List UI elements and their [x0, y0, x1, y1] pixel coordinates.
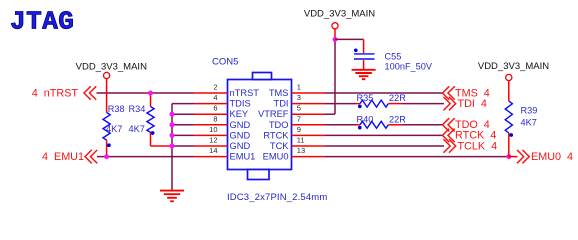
svg-text:TCK: TCK — [270, 141, 289, 151]
power VDD_3V3_MAIN (left) — [76, 62, 147, 79]
svg-text:13: 13 — [297, 146, 305, 155]
svg-text:VTREF: VTREF — [258, 109, 289, 119]
wire TDO (R40 to port) — [402, 124, 443, 126]
wire TCLK — [325, 145, 444, 147]
wire TMS — [325, 92, 443, 94]
svg-text:VDD_3V3_MAIN: VDD_3V3_MAIN — [304, 8, 375, 19]
svg-text:3: 3 — [297, 93, 301, 102]
svg-text:9: 9 — [297, 125, 301, 134]
junction EMU0/R39 — [506, 154, 511, 159]
wire VDD to C55 — [335, 39, 364, 53]
svg-text:5: 5 — [297, 104, 301, 113]
port TMS 4 — [443, 87, 490, 100]
resistor R40 — [356, 114, 406, 129]
svg-text:GND: GND — [230, 141, 251, 151]
svg-text:12: 12 — [209, 136, 217, 145]
svg-text:4K7: 4K7 — [106, 124, 122, 134]
pin 9 — [292, 125, 326, 136]
svg-text:8: 8 — [213, 114, 217, 123]
svg-text:100nF_50V: 100nF_50V — [385, 61, 433, 71]
junction VDD/C55 — [333, 37, 338, 42]
svg-text:RTCK: RTCK — [263, 130, 289, 140]
svg-text:EMU0 4: EMU0 4 — [531, 151, 573, 163]
junction EMU1/R38 — [104, 154, 109, 159]
svg-text:7: 7 — [297, 114, 301, 123]
svg-text:R38: R38 — [108, 104, 125, 114]
svg-text:4K7: 4K7 — [129, 124, 145, 134]
pin 11 — [292, 136, 326, 147]
junction GND bus pin8 — [170, 122, 175, 127]
svg-text:TCLK 4: TCLK 4 — [458, 140, 498, 152]
wire EMU0 to port — [509, 156, 518, 158]
port TCLK 4 — [444, 140, 497, 153]
svg-text:CON5: CON5 — [212, 57, 238, 68]
resistor R35 — [356, 93, 406, 108]
svg-text:TMS: TMS — [269, 88, 289, 98]
svg-text:14: 14 — [209, 146, 217, 155]
wire GND bus — [172, 104, 194, 191]
svg-text:VDD_3V3_MAIN: VDD_3V3_MAIN — [76, 62, 147, 73]
svg-text:4 EMU1: 4 EMU1 — [42, 151, 84, 163]
svg-text:2: 2 — [213, 83, 217, 92]
svg-text:JTAG: JTAG — [10, 7, 74, 37]
svg-text:VDD_3V3_MAIN: VDD_3V3_MAIN — [478, 61, 549, 72]
pin 5 — [292, 104, 326, 115]
pin 10 — [194, 125, 228, 136]
svg-text:1: 1 — [297, 83, 301, 92]
svg-text:nTRST: nTRST — [230, 88, 260, 98]
svg-text:22R: 22R — [389, 114, 406, 124]
svg-text:R39: R39 — [521, 106, 538, 116]
pin 3 — [292, 93, 326, 104]
svg-text:EMU1: EMU1 — [230, 152, 256, 162]
svg-text:11: 11 — [297, 136, 305, 145]
svg-text:GND: GND — [230, 130, 251, 140]
pin 4 — [194, 93, 228, 104]
power VDD_3V3_MAIN (middle) — [304, 8, 375, 37]
power VDD_3V3_MAIN (right) — [478, 61, 549, 81]
svg-text:TDO: TDO — [269, 120, 289, 130]
junction GND bus pin10 — [170, 133, 175, 138]
svg-text:TDIS: TDIS — [230, 99, 251, 109]
junction nTRST/R34 — [148, 91, 153, 96]
port 4 EMU1 — [42, 150, 97, 163]
junction GND bus pin6 — [170, 112, 175, 117]
pin 8 — [194, 114, 228, 125]
resistor R34 — [129, 93, 173, 146]
svg-text:R35: R35 — [357, 93, 374, 103]
svg-text:GND: GND — [230, 120, 251, 130]
svg-text:6: 6 — [213, 104, 217, 113]
port RTCK 4 — [443, 129, 497, 142]
ground (left) — [160, 191, 184, 202]
svg-text:10: 10 — [209, 125, 217, 134]
pin 14 — [194, 146, 228, 157]
svg-text:KEY: KEY — [230, 109, 249, 119]
wire RTCK — [325, 134, 443, 136]
svg-text:22R: 22R — [389, 93, 406, 103]
svg-text:EMU0: EMU0 — [263, 152, 289, 162]
port EMU0 4 — [518, 150, 574, 163]
connector CON5 — [212, 57, 327, 203]
wire nTRST — [97, 92, 195, 94]
resistor R39 — [505, 81, 537, 157]
pin 7 — [292, 114, 326, 125]
svg-text:TDI: TDI — [274, 99, 289, 109]
pin 12 — [194, 136, 228, 147]
pin 2 — [194, 83, 228, 94]
wire TDO (pin7 to R40) — [325, 124, 356, 126]
wire TDI (pin3 to R35) — [325, 103, 356, 105]
svg-text:4: 4 — [213, 93, 217, 102]
resistor R38 — [103, 79, 125, 157]
wire VDD to VTREF pin5 — [325, 37, 335, 114]
svg-text:IDC3_2x7PIN_2.54mm: IDC3_2x7PIN_2.54mm — [227, 192, 327, 203]
wire EMU1 — [97, 156, 194, 158]
wire TDI (R35 to port) — [402, 103, 444, 105]
svg-text:TDI 4: TDI 4 — [458, 98, 487, 110]
ground (C55) — [352, 70, 376, 79]
port TDO 4 — [443, 119, 490, 132]
port 4 nTRST — [32, 87, 96, 100]
svg-text:4 nTRST: 4 nTRST — [32, 87, 79, 99]
wire EMU0 — [325, 156, 509, 158]
port TDI 4 — [444, 97, 487, 110]
svg-text:4K7: 4K7 — [521, 118, 537, 128]
pin 6 — [194, 104, 228, 115]
capacitor C55 — [354, 48, 433, 71]
pin 13 — [292, 146, 326, 157]
svg-text:R34: R34 — [129, 104, 146, 114]
junction GND bus pin12 — [170, 144, 175, 149]
svg-text:C55: C55 — [385, 51, 402, 61]
svg-text:R40: R40 — [357, 114, 374, 124]
pin 1 — [292, 83, 326, 94]
